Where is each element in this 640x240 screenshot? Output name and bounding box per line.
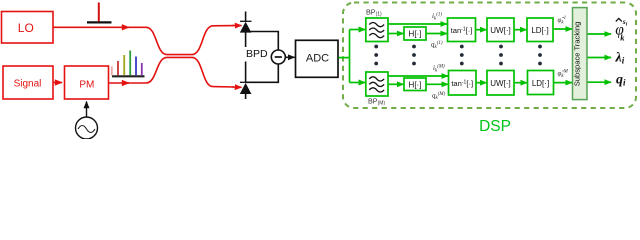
svg-text:k: k bbox=[620, 33, 625, 43]
svg-text:ADC: ADC bbox=[306, 52, 329, 64]
svg-text:qk(1): qk(1) bbox=[431, 41, 443, 51]
svg-text:BP(1): BP(1) bbox=[366, 7, 382, 17]
svg-text:DSP: DSP bbox=[479, 118, 511, 135]
svg-text:qi: qi bbox=[616, 73, 626, 88]
svg-text:ik(M): ik(M) bbox=[433, 64, 445, 74]
svg-text:H[·]: H[·] bbox=[409, 81, 422, 90]
svg-text:PM: PM bbox=[79, 79, 94, 90]
svg-text:BPD: BPD bbox=[246, 48, 268, 60]
svg-text:Subspace Tracking: Subspace Tracking bbox=[573, 22, 582, 87]
svg-text:Signal: Signal bbox=[14, 78, 42, 89]
svg-text:BP(M): BP(M) bbox=[368, 96, 385, 106]
svg-text:LD[·]: LD[·] bbox=[532, 79, 549, 88]
svg-text:λi: λi bbox=[615, 51, 625, 66]
svg-text:φ̂kM: φ̂kM bbox=[558, 70, 569, 80]
svg-text:si: si bbox=[622, 17, 628, 27]
svg-text:UW[·]: UW[·] bbox=[490, 26, 510, 35]
svg-text:ik(1): ik(1) bbox=[432, 12, 442, 22]
svg-text:LO: LO bbox=[18, 21, 34, 35]
svg-text:UW[·]: UW[·] bbox=[490, 79, 510, 88]
svg-text:φ̂k1: φ̂k1 bbox=[558, 16, 567, 26]
svg-text:qk(M): qk(M) bbox=[432, 92, 446, 102]
svg-text:H[·]: H[·] bbox=[409, 30, 422, 39]
svg-text:LD[·]: LD[·] bbox=[531, 26, 548, 35]
